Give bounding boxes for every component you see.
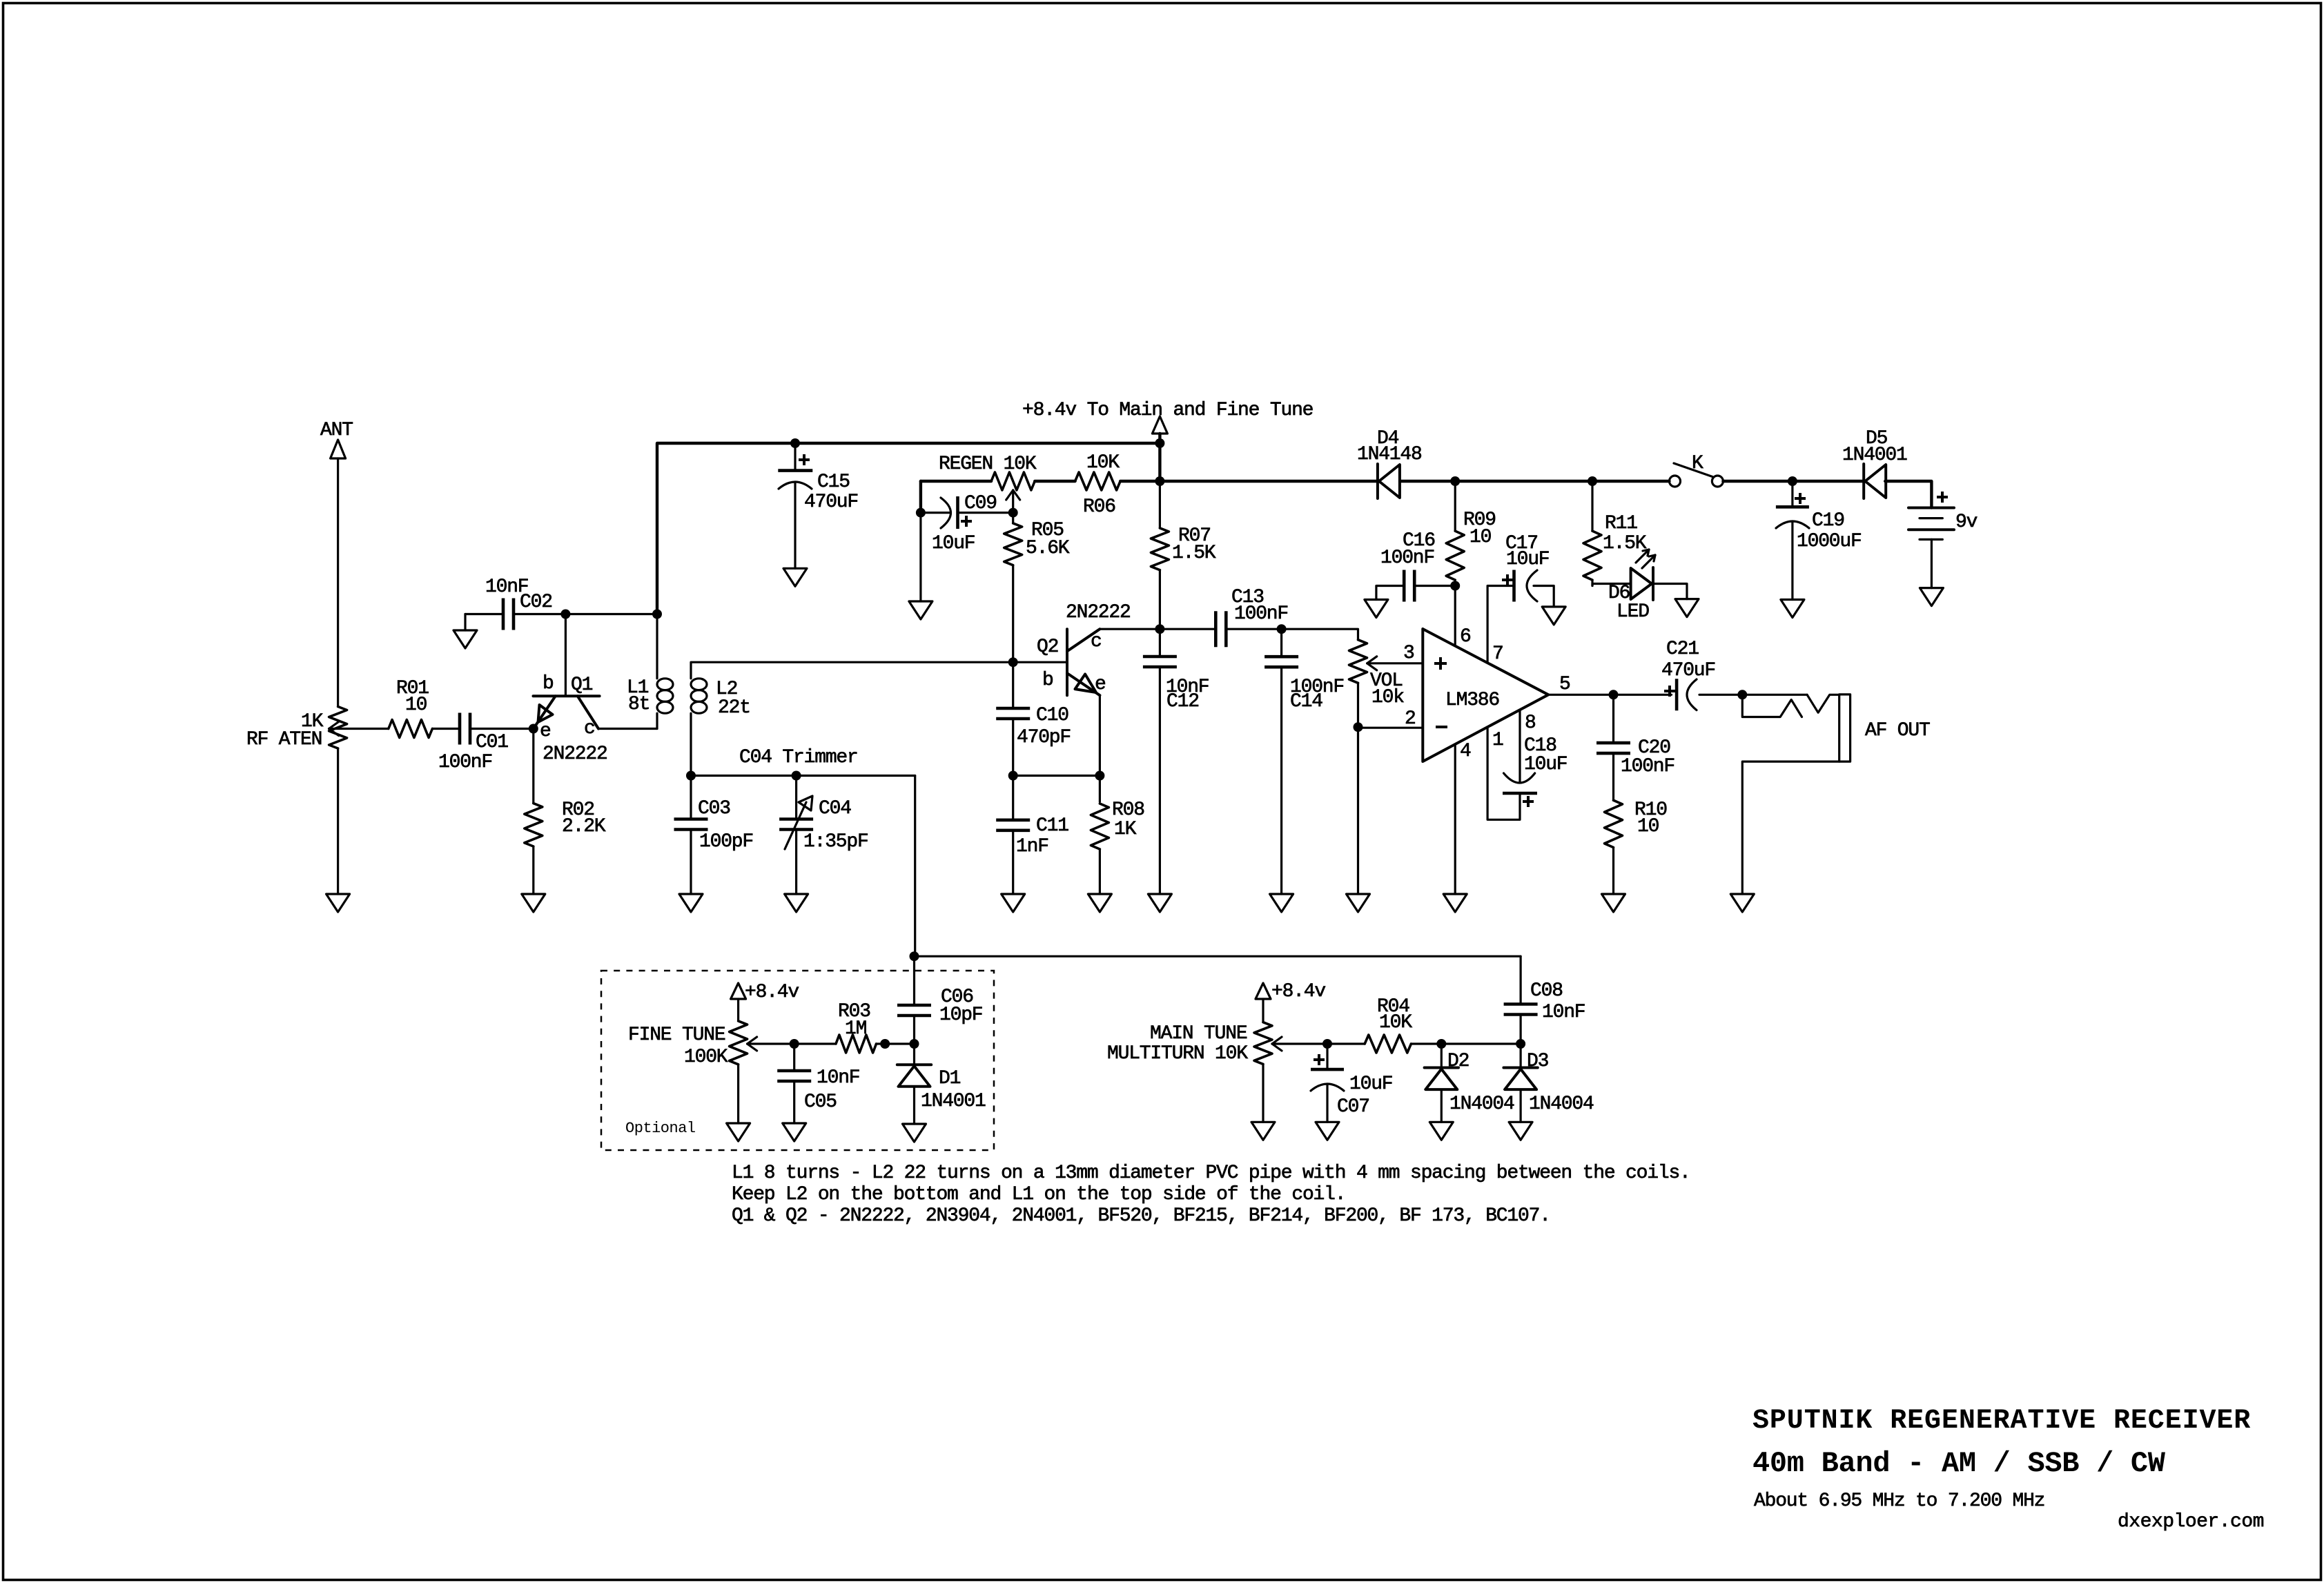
resistor R08 1K bbox=[1091, 776, 1144, 895]
diode D5 1N4001 bbox=[1842, 428, 1907, 498]
resistor R03 1M bbox=[836, 1001, 877, 1053]
svg-text:R11: R11 bbox=[1605, 513, 1637, 534]
wire top rail from L1 to +8.4v node bbox=[657, 443, 1160, 614]
wire pin 5 output bbox=[1548, 674, 1613, 695]
wire Q2 emitter down bbox=[1099, 695, 1101, 775]
svg-text:RF ATEN: RF ATEN bbox=[246, 729, 322, 750]
power +8.4v bbox=[731, 982, 799, 1003]
wire ground to C02 bbox=[465, 613, 504, 615]
note coil winding line 1 bbox=[732, 1163, 1690, 1184]
svg-text:1N4148: 1N4148 bbox=[1357, 444, 1422, 465]
svg-text:100nF: 100nF bbox=[1380, 547, 1434, 569]
node L1 top junction bbox=[652, 610, 662, 619]
wire L1 vertical bbox=[656, 614, 658, 729]
capacitor C04 trimmer 1:35pF bbox=[739, 747, 868, 894]
svg-text:Q2: Q2 bbox=[1037, 637, 1058, 658]
node b junction bbox=[560, 610, 570, 619]
svg-text:10nF: 10nF bbox=[817, 1067, 859, 1089]
resistor R01 10 bbox=[389, 678, 433, 738]
potentiometer RF ATEN 1K bbox=[246, 707, 347, 751]
wire node to R03 bbox=[794, 1042, 836, 1045]
resistor R05 5.6K bbox=[1004, 520, 1070, 565]
svg-text:100K: 100K bbox=[684, 1047, 728, 1068]
ground bbox=[1088, 894, 1111, 912]
svg-text:1nF: 1nF bbox=[1016, 836, 1048, 857]
wire pin 4 to ground bbox=[1455, 741, 1471, 894]
svg-text:ANT: ANT bbox=[320, 420, 353, 441]
node D3 junction bbox=[1516, 1039, 1525, 1049]
node collector junction bbox=[1155, 624, 1164, 634]
resistor R06 10K bbox=[1075, 452, 1121, 518]
svg-text:REGEN 10K: REGEN 10K bbox=[939, 454, 1037, 475]
node C04 junction bbox=[792, 771, 801, 781]
capacitor C05 10nF bbox=[777, 1044, 859, 1123]
svg-text:c: c bbox=[1091, 631, 1102, 652]
svg-text:10: 10 bbox=[1637, 816, 1659, 837]
resistor R10 10 bbox=[1605, 799, 1668, 894]
note transistor substitutions bbox=[732, 1205, 1550, 1227]
svg-text:10uF: 10uF bbox=[1524, 754, 1567, 775]
wire REGEN to R06 bbox=[1035, 480, 1075, 483]
capacitor C11 1nF bbox=[996, 776, 1068, 895]
ground bbox=[1316, 1122, 1339, 1140]
wire L2 bottom to tank node bbox=[690, 713, 692, 775]
svg-text:5.6K: 5.6K bbox=[1026, 538, 1070, 559]
svg-text:R06: R06 bbox=[1083, 496, 1115, 518]
svg-text:LED: LED bbox=[1617, 601, 1649, 623]
svg-text:3: 3 bbox=[1403, 643, 1414, 664]
svg-text:Keep L2 on the bottom and L1 o: Keep L2 on the bottom and L1 on the top … bbox=[732, 1184, 1345, 1205]
ground bbox=[1251, 1122, 1275, 1140]
capacitor C17 10uF bbox=[1487, 533, 1554, 665]
svg-text:2N2222: 2N2222 bbox=[1066, 602, 1131, 623]
svg-text:10K: 10K bbox=[1086, 452, 1120, 474]
wire L2 top to Q2 base bbox=[691, 662, 1067, 679]
subtitle frequency range bbox=[1754, 1490, 2044, 1512]
node R03 junction bbox=[880, 1039, 890, 1049]
wire C10 to R08 link bbox=[1013, 775, 1100, 777]
ground bbox=[1730, 894, 1754, 912]
svg-text:FINE TUNE: FINE TUNE bbox=[628, 1024, 725, 1046]
svg-text:1N4001: 1N4001 bbox=[1842, 445, 1907, 466]
node pin6 junction bbox=[1450, 581, 1460, 591]
svg-text:D1: D1 bbox=[939, 1068, 961, 1089]
capacitor C06 10pF bbox=[897, 956, 982, 1044]
svg-text:b: b bbox=[1042, 670, 1053, 691]
svg-text:e: e bbox=[1095, 674, 1106, 695]
capacitor C18 10uF bbox=[1487, 710, 1567, 819]
svg-text:C04: C04 bbox=[819, 798, 851, 819]
svg-text:10uF: 10uF bbox=[1349, 1074, 1392, 1095]
capacitor C13 100nF bbox=[1215, 587, 1288, 647]
wire +8.4v arrow to rail bbox=[1158, 434, 1161, 481]
ground bbox=[453, 614, 477, 649]
op-amp U1 LM386 bbox=[1423, 629, 1548, 761]
svg-text:SPUTNIK REGENERATIVE RECEIVER: SPUTNIK REGENERATIVE RECEIVER bbox=[1752, 1406, 2251, 1437]
ground bbox=[679, 894, 703, 912]
svg-text:10: 10 bbox=[1469, 527, 1492, 548]
wire C13 to C14 node bbox=[1226, 628, 1281, 630]
node rail1 junction bbox=[1155, 438, 1164, 448]
wire e to R02 bbox=[532, 729, 534, 804]
svg-text:c: c bbox=[584, 718, 595, 739]
svg-text:C01: C01 bbox=[476, 732, 508, 753]
svg-text:AF OUT: AF OUT bbox=[1865, 720, 1930, 741]
wire RF ATEN bottom to ground bbox=[337, 748, 339, 894]
node C19 junction bbox=[1788, 476, 1797, 486]
ground bbox=[1365, 600, 1388, 618]
wire tank node line bbox=[691, 775, 915, 777]
diode D2 1N4004 bbox=[1425, 1044, 1514, 1122]
LED D6 bbox=[1608, 550, 1655, 623]
wire R02 to ground bbox=[532, 846, 534, 894]
svg-text:1K: 1K bbox=[1114, 819, 1137, 840]
svg-text:100nF: 100nF bbox=[438, 752, 492, 773]
svg-text:1N4004: 1N4004 bbox=[1449, 1094, 1514, 1115]
potentiometer MAIN TUNE MULTITURN 10K bbox=[1107, 1022, 1282, 1065]
svg-text:1000uF: 1000uF bbox=[1797, 531, 1862, 552]
node C05 junction bbox=[790, 1039, 799, 1049]
wire C02 to node b bbox=[514, 613, 566, 615]
svg-text:MAIN TUNE: MAIN TUNE bbox=[1150, 1023, 1247, 1045]
ground bbox=[1675, 599, 1699, 617]
wire wiper to R01 bbox=[329, 728, 389, 730]
resistor R09 10 bbox=[1446, 481, 1496, 586]
svg-text:1M: 1M bbox=[845, 1018, 867, 1040]
svg-text:R08: R08 bbox=[1112, 799, 1144, 821]
resistor R11 1.5K bbox=[1583, 481, 1647, 586]
svg-text:470uF: 470uF bbox=[804, 492, 858, 513]
wire D4 to R09 node bbox=[1400, 480, 1455, 483]
node REGEN wiper junction bbox=[1008, 508, 1018, 518]
power +8.4v bbox=[1256, 981, 1325, 1002]
capacitor C08 10nF bbox=[1504, 956, 1585, 1044]
wire pin 6 to supply node bbox=[1455, 586, 1470, 648]
node emitter junction bbox=[1095, 771, 1104, 781]
inductor L1 8t bbox=[627, 677, 673, 715]
wire wiper to C07 node bbox=[1272, 1042, 1327, 1045]
svg-text:MULTITURN 10K: MULTITURN 10K bbox=[1107, 1043, 1248, 1065]
title SPUTNIK REGENERATIVE RECEIVER bbox=[1752, 1406, 2251, 1437]
transistor Q1 2N2222 bbox=[534, 614, 607, 766]
ground bbox=[783, 568, 807, 586]
wire VOL bottom to node bbox=[1357, 683, 1359, 727]
wire C01 to node e bbox=[471, 728, 534, 730]
capacitor C19 1000uF bbox=[1776, 481, 1862, 600]
wire rail2 left corner to C09 bbox=[919, 481, 922, 513]
wire VOL wiper to pin 3 bbox=[1367, 643, 1423, 664]
svg-text:+8.4v: +8.4v bbox=[1271, 981, 1325, 1002]
svg-text:L1 8 turns - L2 22 turns on a: L1 8 turns - L2 22 turns on a 13mm diame… bbox=[732, 1163, 1690, 1184]
wire R06 to +8.4v node bbox=[1120, 480, 1160, 483]
wire +8.4v to FINE TUNE pot bbox=[737, 999, 739, 1021]
node D2 junction bbox=[1436, 1039, 1446, 1049]
svg-text:10uF: 10uF bbox=[1506, 549, 1549, 570]
ground bbox=[326, 894, 350, 912]
wire rail2 to R11 node bbox=[1455, 480, 1592, 483]
capacitor C21 470uF bbox=[1614, 639, 1743, 710]
potentiometer FINE TUNE 100K bbox=[628, 1021, 757, 1068]
node R11 rail junction bbox=[1588, 476, 1597, 486]
wire wiper to C05 node bbox=[748, 1042, 794, 1045]
svg-text:1: 1 bbox=[1492, 730, 1503, 751]
wire rail2 to switch bbox=[1592, 480, 1670, 483]
ground bbox=[1347, 894, 1370, 912]
svg-text:5: 5 bbox=[1559, 674, 1570, 695]
ground bbox=[909, 601, 932, 619]
ground bbox=[783, 1123, 806, 1141]
node L2-C03 junction bbox=[686, 771, 696, 781]
wire D2 node to D3 node bbox=[1441, 1042, 1521, 1045]
svg-text:e: e bbox=[540, 721, 551, 742]
wire Q2 collector to node bbox=[1100, 628, 1160, 630]
wire C14 node to VOL bbox=[1282, 629, 1358, 640]
node VOL bottom junction bbox=[1354, 722, 1363, 732]
wire C09 to ground bbox=[919, 513, 921, 601]
node Q2 base junction bbox=[1008, 657, 1018, 667]
capacitor C12 10nF bbox=[1143, 629, 1209, 894]
wire MAIN TUNE to ground bbox=[1262, 1064, 1264, 1122]
svg-text:100nF: 100nF bbox=[1234, 603, 1288, 625]
svg-text:D2: D2 bbox=[1447, 1051, 1469, 1072]
capacitor C02 10nF bbox=[485, 576, 552, 630]
wire tank to tuning feed bbox=[914, 776, 916, 957]
optional section box bbox=[601, 971, 994, 1150]
svg-text:About 6.95 MHz to 7.200 MHz: About 6.95 MHz to 7.200 MHz bbox=[1754, 1490, 2044, 1512]
inductor L2 22t bbox=[691, 679, 750, 719]
wire R03 to D1 node bbox=[877, 1042, 915, 1045]
wire FINE TUNE to ground bbox=[737, 1065, 739, 1123]
svg-text:C04 Trimmer: C04 Trimmer bbox=[739, 747, 858, 768]
switch K bbox=[1670, 453, 1724, 487]
ground bbox=[785, 894, 808, 912]
svg-text:10k: 10k bbox=[1371, 687, 1404, 708]
svg-text:C08: C08 bbox=[1530, 980, 1563, 1002]
resistor R02 2.2K bbox=[525, 799, 606, 846]
svg-text:C05: C05 bbox=[804, 1091, 837, 1113]
svg-text:2: 2 bbox=[1405, 708, 1416, 730]
svg-text:6: 6 bbox=[1460, 626, 1471, 648]
wire switch to C19 node bbox=[1723, 480, 1793, 483]
svg-text:Q1: Q1 bbox=[571, 674, 593, 696]
svg-text:2.2K: 2.2K bbox=[562, 816, 606, 837]
transistor Q2 2N2222 bbox=[1037, 602, 1131, 695]
svg-text:10uF: 10uF bbox=[932, 533, 975, 554]
diode D4 1N4148 bbox=[1357, 428, 1422, 498]
svg-text:C14: C14 bbox=[1290, 691, 1322, 712]
svg-text:100nF: 100nF bbox=[1621, 756, 1674, 777]
capacitor C20 100nF bbox=[1596, 695, 1674, 800]
ground bbox=[1602, 894, 1625, 912]
svg-text:1:35pF: 1:35pF bbox=[803, 831, 868, 853]
node C10 bottom junction bbox=[1008, 771, 1018, 781]
svg-text:1.5K: 1.5K bbox=[1603, 533, 1647, 554]
svg-text:40m Band - AM / SSB / CW: 40m Band - AM / SSB / CW bbox=[1752, 1447, 2166, 1480]
wire node to R04 bbox=[1327, 1042, 1365, 1045]
node C15 junction bbox=[790, 438, 800, 448]
node D1 junction bbox=[910, 1039, 919, 1049]
node C07 junction bbox=[1322, 1039, 1332, 1049]
connector AF OUT jack bbox=[1742, 695, 1930, 761]
svg-text:C19: C19 bbox=[1812, 510, 1844, 532]
wire R11 to LED bbox=[1592, 584, 1631, 586]
resistor R04 10K bbox=[1365, 996, 1412, 1053]
wire rail2 REGEN segment bbox=[921, 480, 991, 483]
capacitor C07 10uF bbox=[1311, 1044, 1392, 1122]
capacitor C14 100nF bbox=[1264, 629, 1344, 894]
power +8.4v To Main and Fine Tune bbox=[1022, 400, 1313, 434]
svg-text:1N4004: 1N4004 bbox=[1529, 1094, 1594, 1115]
svg-text:D3: D3 bbox=[1527, 1051, 1549, 1072]
svg-text:470pF: 470pF bbox=[1017, 727, 1071, 748]
wire rail2 to D4 bbox=[1160, 480, 1378, 483]
subtitle 40m Band - AM / SSB / CW bbox=[1752, 1447, 2166, 1480]
svg-text:100pF: 100pF bbox=[699, 831, 753, 853]
svg-text:Q1 & Q2 - 2N2222, 2N3904, 2N40: Q1 & Q2 - 2N2222, 2N3904, 2N4001, BF520,… bbox=[732, 1205, 1550, 1227]
wire R01 to C01 bbox=[432, 728, 459, 730]
svg-text:4: 4 bbox=[1460, 741, 1471, 762]
wire VOL node to ground bbox=[1357, 727, 1359, 894]
ground bbox=[1148, 894, 1171, 912]
ground bbox=[903, 1124, 926, 1142]
svg-text:1.5K: 1.5K bbox=[1172, 543, 1216, 564]
svg-text:8t: 8t bbox=[628, 694, 650, 715]
wire collector node to C13 bbox=[1160, 628, 1215, 630]
wire jack sleeve to ground bbox=[1742, 761, 1839, 894]
wire node to pin 2 bbox=[1358, 708, 1423, 730]
svg-text:1N4001: 1N4001 bbox=[921, 1091, 986, 1112]
svg-text:7: 7 bbox=[1492, 643, 1503, 665]
svg-text:C03: C03 bbox=[698, 798, 730, 819]
capacitor C01 100nF bbox=[438, 713, 508, 774]
svg-text:2N2222: 2N2222 bbox=[543, 744, 607, 765]
ground bbox=[1270, 894, 1293, 912]
wire battery to ground bbox=[1931, 539, 1933, 587]
node output junction bbox=[1609, 690, 1619, 699]
wire C19 node to D5 bbox=[1793, 480, 1864, 483]
svg-text:10pF: 10pF bbox=[939, 1004, 982, 1026]
battery 9v bbox=[1908, 492, 1978, 539]
svg-text:dxexploer.com: dxexploer.com bbox=[2118, 1511, 2264, 1533]
credit dxexploer.com bbox=[2118, 1511, 2264, 1533]
svg-text:C07: C07 bbox=[1337, 1096, 1369, 1118]
wire tuning feed line bbox=[915, 955, 1521, 958]
capacitor C15 470uF bbox=[778, 443, 858, 568]
svg-text:K: K bbox=[1692, 453, 1703, 474]
ground bbox=[1509, 1122, 1532, 1140]
wire R04 to D2 node bbox=[1411, 1042, 1441, 1045]
svg-text:C21: C21 bbox=[1666, 639, 1699, 660]
wire Q1 collector to L1 bbox=[598, 728, 657, 730]
svg-text:+8.4v To Main and Fine Tune: +8.4v To Main and Fine Tune bbox=[1022, 400, 1313, 421]
resistor R07 1.5K bbox=[1151, 481, 1215, 629]
svg-text:C12: C12 bbox=[1166, 691, 1199, 712]
ground bbox=[1429, 1122, 1453, 1140]
diode D1 1N4001 bbox=[897, 1044, 986, 1124]
ground bbox=[1002, 894, 1025, 912]
ground bbox=[1443, 894, 1467, 912]
svg-text:9v: 9v bbox=[1955, 512, 1978, 533]
node R09 rail junction bbox=[1450, 476, 1460, 486]
potentiometer VOL 10k bbox=[1349, 640, 1405, 708]
svg-text:b: b bbox=[543, 673, 554, 695]
svg-text:Optional: Optional bbox=[625, 1120, 696, 1137]
svg-text:10: 10 bbox=[405, 695, 427, 716]
svg-text:C09: C09 bbox=[964, 493, 997, 514]
svg-text:8: 8 bbox=[1525, 712, 1536, 734]
wire D5 to battery bbox=[1885, 481, 1931, 508]
wire +8.4v to MAIN TUNE pot bbox=[1262, 999, 1264, 1022]
svg-text:C02: C02 bbox=[520, 592, 552, 613]
wire ANT to RF ATEN pot bbox=[337, 458, 339, 707]
ground bbox=[1542, 607, 1565, 625]
node tuning feed junction bbox=[910, 951, 919, 961]
svg-text:10K: 10K bbox=[1379, 1012, 1412, 1033]
capacitor C03 100pF bbox=[674, 776, 754, 895]
ground bbox=[1781, 600, 1804, 618]
svg-text:10nF: 10nF bbox=[1542, 1002, 1585, 1023]
svg-text:22t: 22t bbox=[718, 697, 750, 719]
node rail2 junction bbox=[1155, 476, 1164, 486]
svg-text:LM386: LM386 bbox=[1445, 690, 1499, 711]
svg-text:C11: C11 bbox=[1036, 815, 1068, 837]
ground bbox=[1920, 588, 1943, 606]
svg-text:470uF: 470uF bbox=[1661, 660, 1715, 681]
potentiometer REGEN 10K bbox=[939, 454, 1037, 513]
capacitor C09 10uF bbox=[921, 493, 1013, 554]
note coil winding line 2 bbox=[732, 1184, 1345, 1205]
antenna ANT bbox=[320, 420, 353, 458]
svg-text:C15: C15 bbox=[817, 472, 850, 493]
wire node to R05 bbox=[1012, 513, 1014, 523]
ground bbox=[727, 1123, 750, 1141]
node C09 left junction bbox=[916, 508, 926, 518]
wire LED to ground bbox=[1653, 584, 1687, 599]
node C14 junction bbox=[1277, 624, 1287, 634]
ground bbox=[522, 894, 545, 912]
svg-text:+8.4v: +8.4v bbox=[745, 982, 799, 1003]
node jack junction bbox=[1737, 690, 1747, 699]
wire R05 to Q2 base node bbox=[1012, 565, 1014, 663]
diode D3 1N4004 bbox=[1503, 1044, 1594, 1122]
capacitor C10 470pF bbox=[996, 662, 1071, 775]
wire node b to L1 top bbox=[565, 613, 657, 615]
svg-text:C10: C10 bbox=[1036, 705, 1068, 726]
capacitor C16 100nF bbox=[1376, 530, 1455, 602]
node e bbox=[529, 721, 551, 742]
